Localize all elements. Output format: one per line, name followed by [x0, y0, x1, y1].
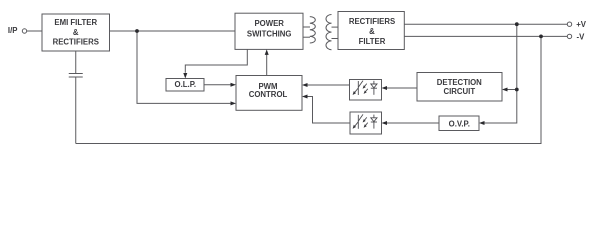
capacitor C1 plates [69, 73, 83, 75]
wire -V rail [404, 35, 567, 37]
wire junction A down to PWM control input [137, 31, 231, 103]
photocoupler U2 internals [353, 114, 377, 128]
block photocoupler U2 [350, 112, 382, 134]
block RECTIFIERS & FILTER [338, 12, 404, 50]
wire O.V.P. to photocoupler U2 [387, 122, 440, 124]
node -V terminal [567, 34, 571, 38]
wire capacitor to bottom return line [75, 77, 77, 144]
transformer T1 secondary winding [326, 14, 332, 49]
svg-text:RECTIFIERS: RECTIFIERS [349, 17, 395, 26]
wire I/P to EMI filter [27, 30, 42, 32]
arrowhead PWM to power switching [265, 49, 269, 55]
block O.L.P. [166, 79, 204, 92]
block photocoupler U1 [350, 80, 382, 101]
U2 phototransistor [357, 115, 359, 129]
capacitor C1 lead from EMI box [75, 51, 77, 73]
node junction on +V rail [515, 22, 519, 26]
svg-text:POWER: POWER [254, 19, 284, 28]
U1 phototransistor [357, 81, 359, 95]
wire detection circuit to photocoupler U1 [387, 87, 418, 89]
svg-text:-V: -V [577, 32, 586, 41]
block POWER SWITCHING [235, 13, 303, 49]
svg-text:CIRCUIT: CIRCUIT [443, 87, 475, 96]
wire photocoupler U2 to PWM control [307, 97, 350, 124]
wire power switching down to O.L.P. [185, 49, 247, 72]
node junction on input rail [135, 29, 139, 33]
svg-text:+V: +V [576, 20, 587, 29]
svg-text:&: & [369, 27, 375, 36]
photocoupler U1 internals [353, 81, 377, 95]
junction dots and arrowheads [135, 22, 543, 125]
block DETECTION CIRCUIT [417, 73, 502, 102]
node junction at detection feed [515, 88, 519, 92]
wire O.L.P. to PWM control [204, 84, 231, 86]
svg-text:EMI FILTER: EMI FILTER [54, 18, 97, 27]
arrowhead detection to U1 [382, 86, 388, 90]
arrowhead O.V.P. to U2 [382, 121, 388, 125]
arrowhead into O.L.P. top [183, 73, 187, 79]
node +V terminal [567, 22, 571, 26]
arrowhead +V feed into detection [502, 88, 508, 92]
transformer T1 primary stubs [303, 26, 310, 28]
svg-text:SWITCHING: SWITCHING [247, 30, 292, 39]
svg-text:O.V.P.: O.V.P. [449, 119, 470, 128]
U2 LED [373, 115, 375, 118]
svg-text:DETECTION: DETECTION [437, 78, 482, 87]
block O.V.P. [439, 116, 479, 131]
node junction on -V rail [539, 35, 543, 39]
arrowhead O.L.P. to PWM control [231, 83, 237, 87]
transformer T1 primary winding [310, 17, 316, 43]
U1 light arrows [363, 84, 366, 88]
wire +V rail down to detection and O.V.P. [484, 24, 517, 123]
svg-text:O.L.P.: O.L.P. [175, 80, 197, 89]
svg-text:FILTER: FILTER [359, 37, 386, 46]
node I/P terminal [22, 29, 26, 33]
svg-text:CONTROL: CONTROL [249, 90, 288, 99]
transformer T1 secondary stubs [332, 26, 339, 28]
wire PWM control up to power switching [266, 54, 268, 76]
block PWM CONTROL [236, 76, 302, 111]
svg-text:RECTIFIERS: RECTIFIERS [53, 38, 99, 47]
wire photocoupler U1 to PWM control [307, 84, 350, 86]
wire bottom return line up to -V rail [76, 36, 541, 143]
U1 LED [373, 81, 375, 84]
wire EMI filter to power switching [110, 30, 236, 32]
arrowhead photocoupler U1 to PWM [302, 83, 308, 87]
svg-text:I/P: I/P [8, 26, 18, 35]
arrowhead into PWM control lower-left [231, 101, 237, 105]
arrowhead +V feed into O.V.P. [479, 121, 485, 125]
svg-text:&: & [73, 28, 79, 37]
block EMI FILTER & RECTIFIERS [42, 14, 110, 51]
wire detection circuit feed [507, 89, 517, 91]
U2 light arrows [363, 117, 366, 121]
wire +V rail [404, 23, 567, 25]
arrowhead photocoupler U2 path to PWM [302, 95, 308, 99]
